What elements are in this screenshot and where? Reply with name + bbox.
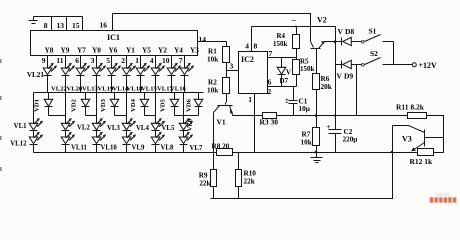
LED VL13 xyxy=(92,68,101,75)
svg-text:V: V xyxy=(286,69,291,77)
wire IC1 pin 9 (col 1) xyxy=(47,56,49,69)
svg-text:Y8: Y8 xyxy=(45,46,54,55)
svg-text:7: 7 xyxy=(269,49,273,58)
IC IC2 555 timer xyxy=(239,52,268,94)
diode VD5 xyxy=(170,93,179,116)
svg-text:VL2: VL2 xyxy=(77,124,90,131)
terminal +12V xyxy=(412,63,416,67)
svg-text:1: 1 xyxy=(135,56,139,65)
resistor R9 xyxy=(211,153,217,199)
switch S2 xyxy=(362,58,413,67)
resistor R10 xyxy=(236,153,242,199)
wire LED row1 cathode xyxy=(184,76,186,93)
wire: bus down to left pair column A xyxy=(33,93,35,124)
LED VL22 xyxy=(61,68,70,75)
svg-text:10μ: 10μ xyxy=(299,105,310,113)
svg-text:VD1: VD1 xyxy=(34,99,41,112)
svg-text:VD2: VD2 xyxy=(71,98,78,112)
svg-text:D8: D8 xyxy=(345,27,354,36)
svg-text:10: 10 xyxy=(162,56,170,65)
svg-text:VL6: VL6 xyxy=(187,118,194,131)
wire pin 14 to R1 xyxy=(198,41,227,43)
wire pair column xyxy=(65,93,67,124)
wire: R1/R2 node to IC2 pin 3 xyxy=(227,70,239,72)
svg-text:V1: V1 xyxy=(217,118,226,127)
wire LED row1 cathode xyxy=(155,76,157,93)
wire VD4 to pair E xyxy=(145,115,156,117)
LED VL10 xyxy=(92,137,101,144)
wire: R11 to right corner xyxy=(427,116,444,153)
wire R12 to right corner xyxy=(434,152,444,154)
svg-text:R6: R6 xyxy=(321,75,330,83)
svg-text:1: 1 xyxy=(248,95,252,104)
svg-text:D7: D7 xyxy=(280,77,289,85)
svg-text:220μ: 220μ xyxy=(343,135,358,143)
svg-text:2: 2 xyxy=(268,87,272,96)
svg-text:Y9: Y9 xyxy=(61,46,70,55)
wire: ground bus to pins 8,13,15 xyxy=(34,16,83,18)
wire IC1 pin 2 (col 6) xyxy=(126,56,128,69)
svg-text:150k: 150k xyxy=(300,65,315,73)
resistor R12 xyxy=(418,149,434,156)
wire V1 collector down to rail xyxy=(213,113,215,153)
svg-text:R9: R9 xyxy=(199,172,208,180)
LED VL11 xyxy=(61,137,70,144)
svg-text:+: + xyxy=(327,123,331,131)
svg-text:VL19: VL19 xyxy=(98,86,114,93)
svg-text:22k: 22k xyxy=(244,178,255,186)
svg-text:14: 14 xyxy=(199,35,207,44)
svg-text:VD6: VD6 xyxy=(186,98,193,112)
wire LED row1 cathode xyxy=(126,76,128,93)
diode VD4 xyxy=(140,93,149,116)
LED VL4 xyxy=(122,123,131,130)
wire IC2 pin 1 to ground rail xyxy=(254,94,256,153)
svg-text:VL11: VL11 xyxy=(71,144,87,151)
LED VL9 xyxy=(122,137,131,144)
wire: VDD rail from pin 16 to V2 collector xyxy=(113,14,311,42)
wire IC1 pin 11 (col 2) xyxy=(65,56,67,69)
svg-text:R2: R2 xyxy=(208,79,217,87)
svg-text:Y6: Y6 xyxy=(109,46,118,55)
wire: supply line to V2 rail xyxy=(252,26,336,28)
wire LED row1 cathode xyxy=(65,76,67,93)
svg-text:R1: R1 xyxy=(208,48,217,56)
svg-text:13: 13 xyxy=(57,21,65,30)
node: R7 ground junction xyxy=(315,151,318,154)
svg-text:+12V: +12V xyxy=(419,61,438,70)
LED VL2 xyxy=(61,123,70,130)
wire pin 8 xyxy=(51,17,53,31)
svg-text:Y0: Y0 xyxy=(92,46,101,55)
wire VD6 to pair F xyxy=(184,115,199,117)
wire pair column xyxy=(183,93,185,124)
svg-text:4: 4 xyxy=(245,42,249,51)
node: V2 emitter junction xyxy=(334,41,337,44)
wire: horizontal bus under row-1 LEDs xyxy=(34,92,204,94)
svg-text:2: 2 xyxy=(121,56,125,65)
wire VD5 to pair F xyxy=(175,115,184,117)
watermark xyxy=(429,194,458,204)
LED VL6 xyxy=(179,123,188,130)
svg-text:VD5: VD5 xyxy=(160,98,167,112)
svg-text:9: 9 xyxy=(42,56,46,65)
wire xyxy=(183,145,185,153)
LED VL7 xyxy=(179,137,188,144)
diode D7 xyxy=(277,58,286,87)
IC1 output labels Y8 Y9 Y7 Y0 Y6 Y1 Y5 Y2 Y4 Y3 xyxy=(45,46,200,55)
svg-text:20k: 20k xyxy=(321,83,332,91)
svg-text:VL5: VL5 xyxy=(162,125,175,132)
wire xyxy=(65,145,67,153)
diode D9 xyxy=(336,60,362,68)
transistor V1 xyxy=(214,103,234,116)
diode VD6 xyxy=(194,93,203,116)
svg-text:4: 4 xyxy=(150,56,154,65)
svg-text:IC1: IC1 xyxy=(107,33,120,42)
wire pair column xyxy=(126,93,128,124)
svg-text:D9: D9 xyxy=(344,72,353,81)
svg-text:VL13: VL13 xyxy=(82,86,98,93)
svg-text:VL9: VL9 xyxy=(132,144,145,151)
wire IC1 pin 4 (col 8) xyxy=(155,56,157,69)
node: R4 supply junction xyxy=(295,26,297,28)
wire LED row1 cathode xyxy=(140,76,142,93)
svg-text:10k: 10k xyxy=(207,56,218,64)
LED VL14 xyxy=(122,68,131,75)
svg-text:VL3: VL3 xyxy=(107,125,120,132)
LED VL12 xyxy=(29,137,38,144)
ground symbol at IC1 pins 8/13/15 xyxy=(29,17,38,24)
svg-text:VL4: VL4 xyxy=(136,125,149,132)
svg-text:6: 6 xyxy=(75,56,79,65)
wire IC1 pin 1 (col 7) xyxy=(140,56,142,69)
wire: emergency supply rail xyxy=(335,27,337,116)
wire LED row1 cathode xyxy=(47,76,49,93)
wire IC2 pin 7 xyxy=(268,57,297,59)
LED VL3 xyxy=(92,123,101,130)
svg-text:±: ± xyxy=(285,97,289,105)
svg-text:VL7: VL7 xyxy=(190,145,203,152)
svg-text:10k: 10k xyxy=(207,87,218,95)
svg-text:VL1: VL1 xyxy=(14,123,27,130)
resistor R11 xyxy=(408,113,427,119)
svg-text:V: V xyxy=(338,27,344,36)
resistor R1 xyxy=(223,42,230,78)
svg-text:VL21: VL21 xyxy=(27,71,45,79)
LED VL5 xyxy=(151,123,160,130)
wire pin 15 xyxy=(82,17,84,31)
IC IC1 decade counter xyxy=(31,31,198,56)
wire xyxy=(126,131,128,138)
svg-text:8: 8 xyxy=(44,21,48,30)
tick mark xyxy=(292,20,297,22)
LED VL18 xyxy=(136,68,145,75)
wire xyxy=(96,131,98,138)
wire IC1 pin 6 (col 3) xyxy=(80,56,82,69)
svg-text:S2: S2 xyxy=(370,49,378,58)
wire xyxy=(96,145,98,153)
svg-text:3: 3 xyxy=(91,56,95,65)
resistor R7 xyxy=(313,116,320,153)
node xyxy=(391,151,394,154)
wire IC1 pin 10 (col 9) xyxy=(171,56,173,69)
svg-text:16: 16 xyxy=(100,21,108,30)
LED VL19 xyxy=(107,68,116,75)
wire IC2 pins 6,2 xyxy=(268,86,297,88)
svg-text:Y5: Y5 xyxy=(142,46,151,55)
node: D9/standby junction xyxy=(356,65,358,116)
wire: rail from R8 to V3 block xyxy=(233,152,418,154)
wire: LED return rail to R8 xyxy=(34,152,217,154)
svg-text:Y7: Y7 xyxy=(77,46,86,55)
resistor R5 xyxy=(293,58,300,87)
wire xyxy=(126,145,128,153)
resistor R2 xyxy=(223,78,230,103)
svg-text:15: 15 xyxy=(72,21,80,30)
svg-text:150k: 150k xyxy=(273,40,288,48)
svg-text:VL20: VL20 xyxy=(67,86,83,93)
wire xyxy=(155,131,157,138)
wire: V1 emitter to R3 xyxy=(233,115,263,117)
svg-text:7: 7 xyxy=(179,56,183,65)
wire xyxy=(33,131,35,138)
wire pair column xyxy=(155,93,157,124)
svg-text:S1: S1 xyxy=(369,27,377,36)
wire VD1 to pair B xyxy=(49,115,66,117)
svg-text:8: 8 xyxy=(254,42,258,51)
svg-text:6: 6 xyxy=(268,78,272,87)
wire pin 16 up from IC1 xyxy=(112,14,114,31)
svg-text:5: 5 xyxy=(106,56,110,65)
wire LED row1 cathode xyxy=(96,76,98,93)
diode VD2 xyxy=(81,93,90,116)
LED VL8 xyxy=(151,137,160,144)
svg-text:VL8: VL8 xyxy=(161,144,174,151)
svg-text:VD3: VD3 xyxy=(100,98,107,112)
svg-text:R8 20: R8 20 xyxy=(212,142,230,150)
resistor R3 xyxy=(263,113,277,119)
wire xyxy=(65,131,67,138)
wire pin 13 xyxy=(66,17,68,31)
wire xyxy=(183,131,185,138)
node: C2 junction xyxy=(334,115,336,117)
svg-text:22k: 22k xyxy=(199,180,210,188)
wire: V3 collector to ground rail xyxy=(392,126,394,153)
LED VL16 xyxy=(180,68,189,75)
LED VL1 xyxy=(29,123,38,130)
wire: R3 to timing node and R11 xyxy=(277,115,408,117)
svg-text:R11 8.2k: R11 8.2k xyxy=(396,103,425,112)
resistor R6 xyxy=(313,49,320,116)
svg-text:Y1: Y1 xyxy=(126,46,135,55)
svg-text:Y2: Y2 xyxy=(158,46,167,55)
svg-text:VL15: VL15 xyxy=(141,86,157,93)
capacitor C2 xyxy=(329,116,342,153)
svg-text:VL16: VL16 xyxy=(170,86,186,93)
wire pair column xyxy=(96,93,98,124)
wire LED row1 cathode xyxy=(111,76,113,93)
svg-text:Y4: Y4 xyxy=(174,46,183,55)
wire IC1 pin 3 (col 4) xyxy=(96,56,98,69)
svg-text:VL22: VL22 xyxy=(51,86,67,93)
diode D8 xyxy=(336,37,362,45)
ground symbol at R7/C2 xyxy=(311,153,323,163)
wire IC2 pins 4,8 to supply xyxy=(251,27,253,52)
svg-text:IC2: IC2 xyxy=(241,55,254,64)
svg-text:R12 1k: R12 1k xyxy=(410,157,434,166)
svg-text:V3: V3 xyxy=(402,135,412,144)
resistor R8 xyxy=(217,149,233,156)
LED VL21 xyxy=(43,68,52,75)
svg-text:VL10: VL10 xyxy=(101,144,118,151)
svg-text:V: V xyxy=(337,72,343,81)
node: timing junction xyxy=(315,114,318,117)
svg-text:R3 30: R3 30 xyxy=(260,118,279,127)
wire LED row1 cathode xyxy=(171,76,173,93)
diode VD1 xyxy=(44,93,53,116)
wire: bottom rail xyxy=(211,153,393,199)
transistor V3 xyxy=(393,126,444,152)
svg-text:VL12: VL12 xyxy=(10,141,27,148)
LED VL17 xyxy=(167,68,176,75)
svg-text:V2: V2 xyxy=(317,16,327,25)
wire VD3 to pair D xyxy=(115,115,127,117)
resistor R4 xyxy=(293,27,300,58)
svg-text:3: 3 xyxy=(230,62,234,71)
capacitor C1 xyxy=(289,87,298,116)
switch S1 xyxy=(362,35,394,44)
wire: S1 to +12V node xyxy=(393,42,395,65)
svg-text:11: 11 xyxy=(56,56,63,65)
wire xyxy=(33,145,35,153)
svg-text:R10: R10 xyxy=(244,170,257,178)
wire VD2 to pair C xyxy=(86,115,97,117)
svg-text:10k: 10k xyxy=(301,138,312,146)
wire LED row1 cathode xyxy=(80,76,82,93)
svg-text:VD4: VD4 xyxy=(130,98,137,112)
wire IC1 pin 7 (col 10) xyxy=(184,56,186,69)
svg-text:R7: R7 xyxy=(302,131,311,139)
LED VL15 xyxy=(151,68,160,75)
wire xyxy=(155,145,157,153)
transistor V2 xyxy=(311,41,336,48)
scan edge marks xyxy=(0,59,2,171)
LED VL20 xyxy=(76,68,85,75)
wire IC1 pin 5 (col 5) xyxy=(111,56,113,69)
diode VD3 xyxy=(110,93,119,116)
svg-text:Y3: Y3 xyxy=(190,46,199,55)
